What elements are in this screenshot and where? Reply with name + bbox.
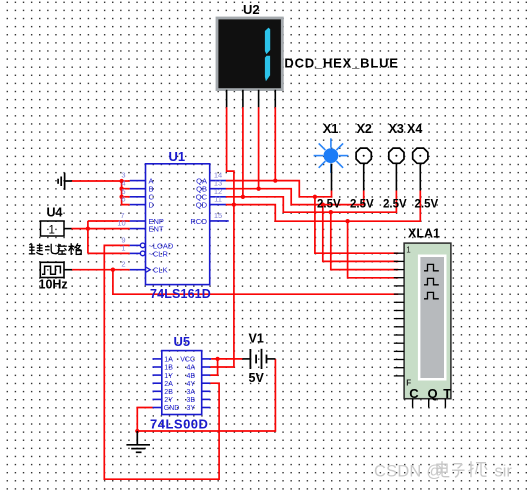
- battery V1 5V: [242, 349, 275, 369]
- wire clock to U1.CLK: [72, 269, 130, 271]
- U1 pin numbers: [117, 171, 222, 269]
- svg-text:CLK: CLK: [153, 266, 168, 275]
- svg-text:C: C: [409, 386, 419, 401]
- wire net QB branch to XLA1 ch2: [323, 205, 398, 262]
- wire ground to U1 inputs A B C D: [72, 181, 130, 205]
- svg-text:2.5V: 2.5V: [383, 199, 407, 211]
- svg-text:X4: X4: [407, 122, 422, 136]
- junction at U4 output node: [86, 226, 90, 230]
- wire U2 pin4 to node QA: [274, 107, 276, 180]
- svg-text:1B: 1B: [164, 365, 173, 372]
- svg-text:~CLR: ~CLR: [149, 249, 169, 258]
- wire net QC branch to XLA1 ch3: [331, 212, 398, 269]
- svg-text:sir: sir: [495, 463, 513, 481]
- watermark CSDN @电子张sir: [374, 463, 512, 481]
- svg-text:ENT: ENT: [149, 225, 164, 234]
- svg-text:6: 6: [121, 195, 125, 204]
- svg-text:QD: QD: [196, 201, 208, 210]
- wire ground branch to B: [122, 188, 130, 190]
- display U2 seven-segment DCD_HEX_BLUE: [217, 2, 399, 90]
- XLA1 bottom pins C Q T: [413, 399, 446, 408]
- svg-text:4Y: 4Y: [186, 381, 195, 388]
- svg-text:VCC: VCC: [180, 357, 195, 364]
- svg-text:X3: X3: [389, 122, 404, 136]
- svg-text:2.5V: 2.5V: [350, 199, 374, 211]
- XLA1 left channel pins: [394, 253, 404, 376]
- U2 pin 3 stub: [258, 90, 260, 107]
- U5 pin names: [164, 357, 196, 413]
- svg-text:V1: V1: [249, 332, 264, 346]
- wire ground branch to C: [122, 196, 130, 198]
- svg-text:D: D: [149, 201, 155, 210]
- wire net QD from U1.QD to lamp X4: [226, 191, 421, 222]
- ground (top left): [58, 173, 72, 190]
- svg-text:15: 15: [214, 211, 222, 220]
- svg-text:2.5V: 2.5V: [415, 199, 439, 211]
- svg-text:1: 1: [121, 243, 125, 252]
- NAND U5 74LS00D: [153, 351, 212, 415]
- lamp probe X1 (lit): [314, 122, 349, 211]
- svg-text:CSDN @: CSDN @: [374, 463, 443, 481]
- svg-text:DCD_HEX_BLUE: DCD_HEX_BLUE: [284, 55, 398, 70]
- svg-text:2Y: 2Y: [164, 397, 173, 404]
- clock source 10Hz: [39, 262, 73, 291]
- wire U4 branch vertical: [87, 221, 89, 253]
- wire ground branch to A: [122, 180, 130, 182]
- junction QC-U2pin2: [241, 195, 245, 199]
- svg-text:RCO: RCO: [190, 217, 207, 226]
- wire U4 output to ENP ENT and ~CLR: [72, 228, 130, 230]
- svg-text:3B: 3B: [186, 397, 195, 404]
- lamp probe X3: [383, 122, 407, 211]
- logic analyzer XLA1: [404, 227, 451, 402]
- svg-text:U2: U2: [243, 2, 260, 17]
- svg-text:XLA1: XLA1: [408, 227, 440, 241]
- junction QC-XLA1 branch: [329, 210, 333, 214]
- svg-text:2.5V: 2.5V: [317, 199, 341, 211]
- segment c of digit 1: [265, 56, 270, 81]
- svg-text:2B: 2B: [164, 389, 173, 396]
- wire U2 pin2 to node QC: [242, 107, 244, 197]
- junction at ground-A: [119, 179, 123, 183]
- svg-text:3A: 3A: [186, 389, 195, 396]
- lamp probe X4: [407, 122, 438, 211]
- svg-text:X1: X1: [323, 122, 338, 136]
- junction ground2 node: [135, 429, 139, 433]
- junction QD-XLA1 branch: [345, 219, 349, 223]
- svg-text:2: 2: [121, 260, 125, 269]
- svg-text:4B: 4B: [186, 373, 195, 380]
- svg-text:U1: U1: [169, 149, 186, 164]
- watermark CJK glyphs 电子张: [437, 461, 487, 477]
- svg-text:11: 11: [214, 195, 222, 204]
- svg-text:2A: 2A: [164, 381, 173, 388]
- svg-text:10Hz: 10Hz: [39, 278, 68, 292]
- segment b of digit 1: [265, 28, 270, 55]
- junction QB-XLA1 branch: [321, 202, 325, 206]
- junction VCC node: [215, 357, 219, 361]
- U2 pin 4 stub: [274, 90, 276, 107]
- junction at CLK branch: [111, 268, 115, 272]
- U2 pin 2 stub: [242, 90, 244, 107]
- label 键=U空格 (key = U space) drawn as strokes: [29, 243, 82, 255]
- svg-text:T: T: [443, 386, 451, 401]
- wire net QC from U1.QC to lamp X3: [226, 191, 397, 213]
- wire U5.VCC to battery plus: [211, 358, 242, 360]
- wire branch to ENP: [88, 220, 130, 222]
- svg-text:5V: 5V: [249, 371, 265, 385]
- svg-text:74LS00D: 74LS00D: [150, 416, 208, 431]
- wire U2 pin1 to node QD: [227, 107, 234, 204]
- svg-text:U4: U4: [47, 206, 63, 220]
- wire VCC branch to U5.4B: [210, 359, 217, 375]
- svg-text:74LS161D: 74LS161D: [150, 287, 211, 301]
- constant U4: [41, 206, 72, 237]
- wire U2 pin3 to node QB: [258, 107, 260, 189]
- wire battery minus to ground: [137, 359, 275, 431]
- wire U5.GND to ground: [137, 408, 152, 432]
- svg-text:1: 1: [49, 225, 55, 237]
- wire net QD branch down to U5 pin 4A: [210, 205, 234, 367]
- svg-text:U5: U5: [174, 334, 191, 349]
- svg-text:1Y: 1Y: [164, 373, 173, 380]
- wire branch to ~CLR: [88, 252, 130, 254]
- wire net QB from U1.QB to lamp X2: [226, 189, 364, 205]
- junction at ground-C: [119, 195, 123, 199]
- wire net ~LOAD from U5.4Y loop: [104, 245, 219, 479]
- U2 pin 1 stub: [226, 90, 228, 107]
- wire net QA branch to XLA1 ch1: [315, 197, 398, 253]
- svg-text:1: 1: [406, 246, 411, 255]
- junction QA-XLA1 branch: [313, 195, 317, 199]
- svg-text:X2: X2: [357, 122, 372, 136]
- wire clock branch to XLA1 ch6: [113, 270, 398, 295]
- junction QA-U2pin4: [273, 178, 277, 182]
- wire net QA from U1.QA to lamp X1: [226, 181, 332, 197]
- junction QD-U2pin1: [232, 202, 236, 206]
- svg-text:4A: 4A: [186, 365, 195, 372]
- counter U1 74LS161D: [130, 164, 229, 285]
- wire net QD branch to XLA1 ch4: [348, 221, 399, 278]
- svg-text:10: 10: [117, 219, 125, 228]
- ground (bottom, battery return): [126, 431, 150, 452]
- junction QB-U2pin3: [256, 187, 260, 191]
- U1 pin names: [149, 177, 208, 275]
- svg-text:1A: 1A: [164, 357, 173, 364]
- junction at ground-B: [119, 187, 123, 191]
- lamp probe X2: [350, 122, 374, 211]
- svg-text:3Y: 3Y: [186, 405, 195, 412]
- svg-text:GND: GND: [164, 405, 180, 412]
